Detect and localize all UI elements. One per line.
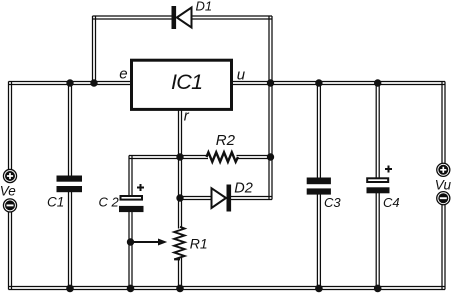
svg-text:R1: R1 <box>190 235 208 251</box>
svg-text:R2: R2 <box>216 132 236 149</box>
svg-text:e: e <box>119 66 127 83</box>
svg-text:C3: C3 <box>324 195 341 210</box>
svg-text:C1: C1 <box>47 194 64 209</box>
svg-text:D1: D1 <box>196 0 213 14</box>
svg-text:IC1: IC1 <box>171 70 202 94</box>
svg-text:Vu: Vu <box>435 177 452 192</box>
svg-text:u: u <box>237 67 246 84</box>
svg-text:D2: D2 <box>234 181 253 197</box>
svg-text:Ve: Ve <box>0 184 16 199</box>
svg-text:C 2: C 2 <box>99 195 120 210</box>
svg-text:C4: C4 <box>383 195 400 210</box>
